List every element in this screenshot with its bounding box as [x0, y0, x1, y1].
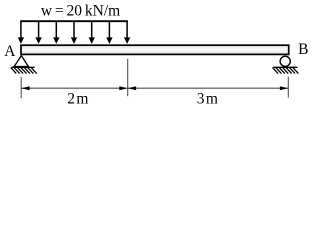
- roller support at B: [280, 56, 290, 66]
- extension line at A: [20, 77, 22, 98]
- svg-text:w = 20 kN/m: w = 20 kN/m: [41, 3, 120, 20]
- load arrow 6: [106, 21, 112, 44]
- dimension line 3m: [128, 87, 289, 89]
- svg-text:A: A: [4, 43, 16, 60]
- ground hatching at B: [273, 68, 299, 74]
- svg-text:3m: 3m: [197, 91, 220, 108]
- dim arrow right (3m): [280, 86, 288, 90]
- ground hatching at A: [11, 68, 37, 74]
- beam AB: [21, 45, 289, 54]
- load arrow 5: [89, 21, 95, 44]
- load arrow 4: [71, 21, 77, 44]
- dim arrow right (2m): [119, 86, 127, 90]
- load arrow 2: [35, 21, 41, 44]
- distributed load top line: [20, 20, 128, 22]
- svg-text:2m: 2m: [67, 91, 90, 108]
- ground line at B: [273, 66, 297, 68]
- load arrow 7: [124, 21, 130, 44]
- dim arrow left (3m): [128, 86, 136, 90]
- extension line at B: [287, 77, 289, 98]
- load arrow 1: [18, 21, 24, 44]
- pin support at A: [14, 56, 28, 67]
- ground line at A: [12, 66, 35, 68]
- dim arrow left (2m): [21, 86, 29, 90]
- extension line at load end: [127, 59, 129, 96]
- svg-text:B: B: [298, 41, 308, 58]
- dimension line 2m: [21, 87, 128, 89]
- load arrow 3: [53, 21, 59, 44]
